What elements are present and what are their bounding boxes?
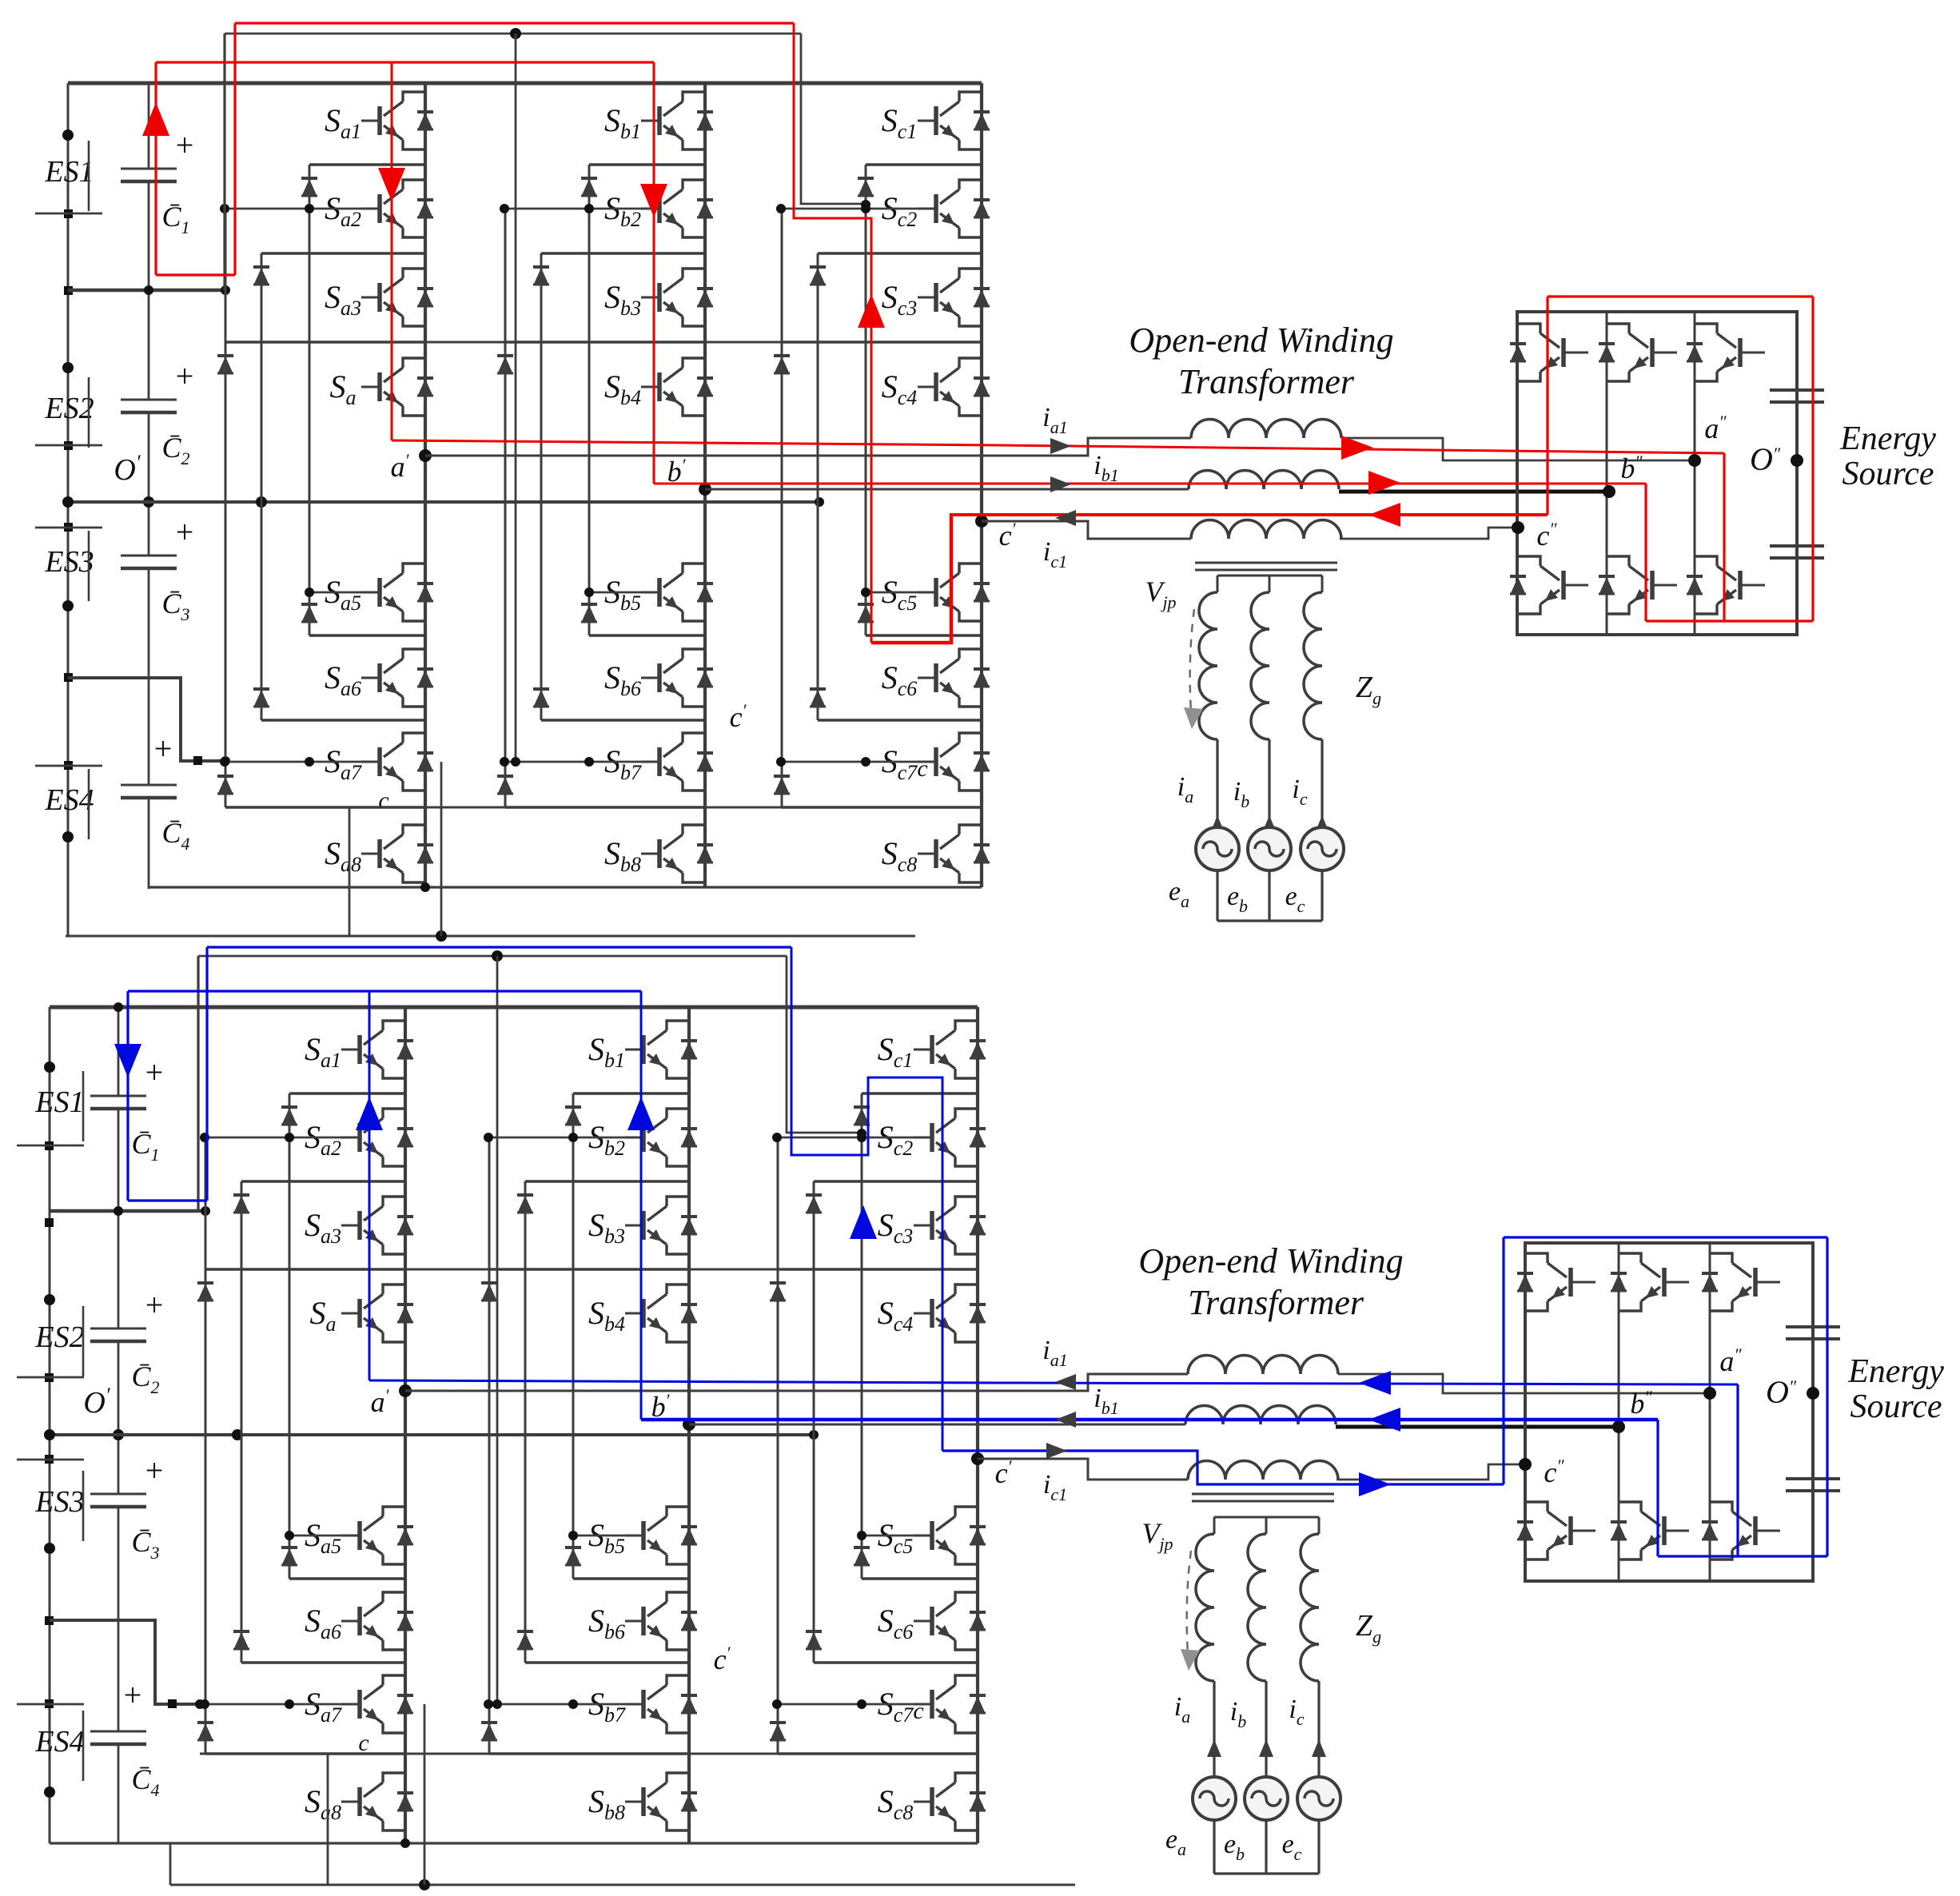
wire: top half secondary top bus	[1217, 576, 1322, 592]
wire: bottom half c-leg gate bus upper	[772, 1133, 915, 1142]
switch Sa4 (bottom half)	[341, 1285, 405, 1342]
blue path: C1 loop bottom	[128, 1199, 207, 1201]
diode of Sb5 (top half)	[697, 584, 713, 601]
switch Sc4 (bottom half)	[914, 1285, 978, 1342]
switch Sa8 (top half)	[361, 825, 425, 882]
label b'' (bottom half)	[1630, 1387, 1652, 1420]
blue arrow up at Sa2	[356, 1097, 383, 1130]
switch Sb1 (top half)	[641, 92, 705, 149]
wire: top half c-leg clamp bar 3 lower	[782, 806, 982, 809]
wire: top half link drop a	[223, 34, 225, 290]
diode of Sb5 (bottom half)	[681, 1527, 697, 1544]
wire: top half b-phase thick line to converter	[1339, 490, 1609, 494]
capacitor lower (top half)	[1770, 546, 1824, 558]
label Sb6 (top half)	[604, 659, 641, 700]
label i_c1 (top half)	[1043, 537, 1067, 572]
diode of Sc3 (bottom half)	[970, 1217, 986, 1234]
node a'' (bottom half)	[1703, 1387, 1716, 1400]
wire: top half a-leg clamp bar 2 lower	[261, 719, 425, 722]
label C4 (top half)	[161, 817, 189, 854]
wire: bottom half a-phase line to winding	[405, 1374, 1188, 1391]
diode of Sa5 (bottom half)	[397, 1527, 413, 1544]
junction on bottom half left bus	[45, 1218, 54, 1227]
svg-text:c: c	[358, 1730, 368, 1756]
winding b1 (bottom half)	[1185, 1406, 1336, 1425]
switch Sc3 (bottom half)	[914, 1197, 978, 1254]
diode of Sa7 (top half)	[417, 753, 433, 771]
label e_b (bottom half)	[1224, 1830, 1245, 1864]
wire: bottom half c-leg clamp bar 2 upper	[814, 1180, 978, 1183]
red path: Sc branch top	[794, 23, 871, 643]
capacitor upper (top half)	[1770, 390, 1824, 402]
clamp diode c2d (top half)	[810, 689, 826, 707]
red path: C1 loop bottom	[156, 273, 235, 276]
wire: top half c-phase line to winding	[982, 521, 1191, 539]
svg-text:Energy: Energy	[1847, 1353, 1944, 1390]
switch Sb1 (bottom half)	[625, 1021, 689, 1078]
winding c2 / Zg (top half)	[1304, 592, 1322, 739]
label Z_g (bottom half)	[1356, 1609, 1381, 1647]
label Sb5 (bottom half)	[588, 1517, 625, 1558]
switch Sa3 (bottom half)	[341, 1197, 405, 1254]
label Sc4 (top half)	[882, 368, 918, 409]
label Sc7 (bottom half)	[878, 1686, 914, 1727]
switch Sa4 (top half)	[361, 358, 425, 416]
label Sb1 (top half)	[604, 102, 641, 143]
blue arrow left a-line	[1359, 1371, 1391, 1395]
label Sa5 (top half)	[325, 574, 361, 615]
label O'' (top half)	[1750, 441, 1781, 477]
label C2 (top half)	[161, 432, 189, 468]
diode of Sc6 (top half)	[974, 669, 990, 687]
diode of Sa8 (top half)	[417, 845, 433, 862]
label Sc4 (bottom half)	[878, 1295, 914, 1336]
converter switch T2L (bottom half)	[1619, 1502, 1689, 1559]
wire: top half a-phase line to converter	[1341, 438, 1695, 460]
diode of Sb3 (bottom half)	[681, 1217, 697, 1234]
clamp diode b3d (bottom half)	[481, 1723, 497, 1740]
junction on top half left bus	[64, 761, 73, 770]
winding c1 (top half)	[1191, 520, 1341, 540]
svg-text:+: +	[145, 1287, 164, 1323]
energy source ES3 (top half)	[44, 531, 94, 601]
junction on top half left bus	[64, 286, 73, 295]
capacitor C1 (bottom half)	[90, 1096, 146, 1109]
label C3 (bottom half)	[131, 1526, 159, 1563]
label i_b (top half)	[1233, 777, 1249, 811]
label Sc3 (top half)	[882, 279, 918, 320]
label Z_g (top half)	[1356, 671, 1381, 708]
label C1 (bottom half)	[131, 1128, 159, 1165]
wire: bottom half b-phase thick line to converter	[1336, 1425, 1619, 1429]
dark arrow a-line	[1050, 438, 1071, 454]
wire: top half grid lead b	[1268, 739, 1270, 827]
label Sa2 (top half)	[325, 190, 361, 231]
label a'' (bottom half)	[1719, 1344, 1742, 1377]
wire: bottom half b-leg clamp bar 1 lower	[573, 1577, 689, 1580]
diode of Sb8 (bottom half)	[681, 1793, 697, 1810]
label Sc7 (top half)	[882, 743, 918, 784]
label V_jp (bottom half)	[1141, 1517, 1173, 1554]
diode of Sb2 (top half)	[697, 200, 713, 217]
node on bottom half left bus	[44, 1786, 55, 1798]
switch Sc7 (top half)	[918, 733, 982, 791]
label + of C4 (top half)	[154, 731, 173, 767]
switch Sb8 (bottom half)	[625, 1773, 689, 1830]
blue arrow up at Sb2	[627, 1097, 655, 1130]
label Sb6 (bottom half)	[588, 1603, 625, 1643]
wire: bottom half ES1-ES2 junction to clamp column	[50, 1206, 210, 1216]
wire: bottom half converter frame	[1525, 1243, 1813, 1581]
arrow i_a (top half)	[1210, 815, 1225, 833]
energy source ES1 (top half)	[44, 141, 94, 211]
switch Sc5 (top half)	[918, 564, 982, 621]
wire: top half b-phase line to winding	[705, 488, 1189, 491]
diode of Sa4 (top half)	[417, 378, 433, 396]
blue path: c-phase line	[942, 1451, 1504, 1484]
diode of Sa6 (top half)	[417, 669, 433, 687]
svg-text:+: +	[124, 1677, 142, 1713]
label Sb2 (bottom half)	[588, 1119, 625, 1160]
diode of Sa4 (bottom half)	[397, 1304, 413, 1322]
label Energy (top half)	[1839, 420, 1936, 457]
clamp diode b1u (bottom half)	[565, 1107, 581, 1125]
blue path: C1 loop right vertical	[205, 947, 208, 1201]
wire: top half b-leg clamp bar 2 upper	[541, 252, 705, 255]
wire: bottom half O-prime bus	[44, 1429, 819, 1440]
label Sb7 (top half)	[604, 743, 642, 784]
diode T2H (top half)	[1599, 344, 1615, 361]
label + of C2 (top half)	[176, 358, 194, 394]
red path: b-phase line	[654, 483, 1646, 485]
wire: bottom half grid lead b	[1265, 1681, 1267, 1777]
wire: bottom half a-phase line to converter	[1338, 1374, 1710, 1393]
capacitor C2 (bottom half)	[90, 1328, 146, 1341]
arrow i_c (top half)	[1315, 815, 1329, 833]
wire: bottom half long clamp bus upper	[207, 1269, 778, 1271]
node b-prime (top half)	[699, 483, 711, 496]
converter switch T1H (bottom half)	[1525, 1253, 1595, 1311]
label Sc8 (top half)	[882, 835, 918, 876]
red path: converter left vertical	[1546, 297, 1548, 515]
blue path: b-phase line	[641, 1418, 1658, 1422]
wire: top half b-leg clamp column 2	[540, 253, 543, 720]
clamp diode a3u (top half)	[217, 356, 233, 373]
diode of Sc3 (top half)	[974, 289, 990, 306]
label i_c (top half)	[1292, 775, 1307, 809]
clamp diode c3d (top half)	[774, 776, 790, 794]
label e_a (top half)	[1169, 877, 1189, 911]
switch Sb8 (top half)	[641, 825, 705, 882]
switch Sc7 (bottom half)	[914, 1675, 978, 1733]
diode T2H (bottom half)	[1611, 1273, 1627, 1291]
label + of C4 (bottom half)	[124, 1677, 142, 1713]
svg-text:ES4: ES4	[44, 783, 94, 817]
switch Sb2 (bottom half)	[625, 1109, 689, 1166]
switch Sa5 (bottom half)	[341, 1507, 405, 1564]
clamp diode b2d (top half)	[533, 689, 549, 707]
clamp diode c1u (bottom half)	[854, 1107, 870, 1125]
label c'' (top half)	[1536, 519, 1557, 552]
node on bottom half left bus	[44, 1062, 55, 1073]
diode T2L (top half)	[1599, 576, 1615, 594]
wire: top half phase-c leg rail	[980, 83, 983, 887]
capacitor lower (bottom half)	[1786, 1479, 1840, 1491]
converter switch T2H (top half)	[1607, 324, 1677, 381]
label a'' (top half)	[1704, 412, 1727, 444]
blue path: b drop in converter	[1656, 1420, 1659, 1556]
wire: top half phase-a leg rail	[424, 83, 427, 887]
svg-text:Open-end Winding: Open-end Winding	[1129, 321, 1393, 360]
label Sa3 (top half)	[325, 279, 361, 320]
label i_c (bottom half)	[1289, 1695, 1304, 1729]
energy source ES2 (top half)	[44, 377, 94, 448]
dashed Vjp arrow (bottom half)	[1181, 1551, 1200, 1671]
red path: converter bottom	[1646, 619, 1813, 622]
label Source (bottom half)	[1850, 1388, 1942, 1425]
junction on top half left bus	[64, 209, 73, 218]
svg-text:+: +	[145, 1452, 164, 1488]
arrow i_a (bottom half)	[1207, 1739, 1221, 1757]
label Sb7 (bottom half)	[588, 1686, 626, 1727]
diode T1H (top half)	[1510, 344, 1526, 361]
diode of Sa3 (top half)	[417, 289, 433, 306]
wire: top half a-leg clamp bar 1 lower	[309, 634, 425, 637]
wire: top half converter leg 3	[1694, 312, 1696, 635]
dark arrow a-line (bottom)	[1055, 1374, 1076, 1390]
diode of Sc4 (top half)	[974, 378, 990, 396]
wire: top half c-leg clamp bar 3 upper	[782, 341, 982, 344]
wire: top half left DC bus vertical	[67, 83, 70, 936]
label Sa3 (bottom half)	[305, 1207, 341, 1248]
label a' (bottom half)	[371, 1385, 390, 1418]
blue path: Sb branch	[640, 991, 643, 1420]
wire: top half long clamp bus upper	[227, 341, 782, 344]
wire: top half ES1-ES2 junction to clamp column	[68, 285, 230, 295]
label i_a (top half)	[1177, 772, 1193, 807]
clamp diode b2u (bottom half)	[517, 1195, 533, 1213]
node C1 top lead (bottom half)	[113, 1002, 124, 1440]
winding b2 (bottom half)	[1248, 1534, 1266, 1681]
wire: top half link drop b	[511, 34, 520, 767]
red path: a-phase line	[392, 440, 1724, 453]
wire: bottom half c-leg clamp column 1	[861, 1093, 863, 1579]
clamp diode c1d (top half)	[858, 604, 874, 622]
label C4 (bottom half)	[131, 1763, 159, 1800]
wire: bottom half c-leg S5 gate link	[857, 1531, 915, 1540]
grid source e_b (top half)	[1248, 827, 1291, 870]
red path: top line	[235, 22, 794, 24]
clamp diode b3d (top half)	[497, 776, 513, 794]
wire: top half a-leg S5 gate link	[305, 588, 363, 597]
svg-text:ES3: ES3	[44, 545, 94, 579]
node b'' (bottom half)	[1612, 1420, 1625, 1433]
clamp diode a2u (bottom half)	[233, 1195, 249, 1213]
wire: bottom half phase-b leg rail	[687, 1007, 691, 1843]
blue path: C1 loop vertical	[126, 991, 129, 1201]
wire: top half O-prime bus	[62, 496, 824, 508]
wire: top half lower return drop	[440, 762, 443, 936]
wire: top half c-leg gate bus upper	[776, 204, 919, 213]
label Sc8 (bottom half)	[878, 1783, 914, 1824]
clamp diode a3d (bottom half)	[197, 1723, 213, 1740]
label Sc6 (bottom half)	[878, 1603, 914, 1643]
label + of C1 (top half)	[176, 127, 194, 163]
diode of Sc5 (top half)	[974, 584, 990, 601]
diode of Sa2 (bottom half)	[397, 1129, 413, 1146]
node a-prime (top half)	[419, 449, 432, 462]
wire: bottom half ES terminal tick	[17, 1145, 84, 1147]
red arrow down at Sb2	[640, 184, 667, 217]
switch Sb2 (top half)	[641, 180, 705, 237]
label Sc2 (bottom half)	[878, 1119, 914, 1160]
diode of Sb7 (bottom half)	[681, 1695, 697, 1713]
label Sc1 (top half)	[882, 102, 918, 143]
clamp diode a3u (bottom half)	[197, 1283, 213, 1301]
node ES4 tap (top half)	[144, 285, 230, 766]
diode of Sb3 (top half)	[697, 289, 713, 306]
clamp diode b3u (top half)	[497, 356, 513, 373]
red path: converter top	[1548, 295, 1813, 297]
node c-prime (bottom half)	[971, 1452, 984, 1465]
blue path: Sa branch	[368, 991, 371, 1380]
red arrow left c-line	[1368, 503, 1400, 527]
wire: top half grid lead c	[1321, 739, 1323, 827]
wire: bottom half b-leg clamp bar 3 lower	[489, 1752, 689, 1755]
switch Sc5 (bottom half)	[914, 1507, 978, 1564]
label Sb3 (top half)	[604, 279, 641, 320]
label Open-end Winding (bottom half)	[1138, 1241, 1403, 1281]
clamp diode a2u (top half)	[253, 267, 269, 285]
red arrow up at Sc3	[858, 294, 885, 328]
label i_b (bottom half)	[1230, 1697, 1246, 1731]
capacitor C4 (top half)	[121, 785, 177, 798]
wire: bottom half b-leg clamp bar 1 upper	[573, 1092, 689, 1095]
clamp diode a3d (top half)	[217, 776, 233, 794]
svg-text:c: c	[378, 787, 388, 814]
wire: bottom half b-leg clamp column 1	[572, 1093, 575, 1579]
svg-text:Source: Source	[1842, 456, 1934, 492]
label Sa1 (bottom half)	[305, 1031, 341, 1072]
wire: bottom half leg bottom bus	[50, 1838, 978, 1848]
label V_jp (top half)	[1145, 576, 1176, 612]
converter switch T3H (top half)	[1695, 324, 1765, 381]
diode of Sa2 (top half)	[417, 200, 433, 217]
wire: top half a-leg clamp bar 1 upper	[309, 163, 425, 166]
node c'' (bottom half)	[1519, 1458, 1532, 1471]
wire: bottom half c-leg clamp bar 2 lower	[814, 1661, 978, 1664]
node C1 top lead (top half)	[143, 496, 154, 508]
wire: top half ES terminal tick	[35, 213, 102, 215]
wire: bottom half b-phase line to winding	[689, 1424, 1185, 1426]
switch Sc6 (bottom half)	[914, 1592, 978, 1650]
red path: b drop in converter	[1644, 484, 1647, 621]
winding a2 / Vjp (bottom half)	[1196, 1534, 1214, 1681]
label e_c (top half)	[1285, 882, 1305, 916]
wire: top half c-leg clamp bar 1 upper	[866, 163, 982, 166]
capacitor C3 (bottom half)	[90, 1494, 146, 1507]
grid source e_a (top half)	[1196, 827, 1239, 870]
wire: top half ES terminal tick	[35, 765, 102, 767]
dark arrow c-line	[1055, 510, 1076, 526]
svg-text:Transformer: Transformer	[1178, 362, 1355, 401]
wire: top half a-leg clamp column 2	[261, 253, 263, 720]
wire: bottom half left DC bus vertical	[49, 1007, 51, 1843]
switch Sc2 (top half)	[918, 180, 982, 237]
wire: top half b-leg gate bus upper	[500, 204, 643, 213]
energy source ES2 (bottom half)	[34, 1306, 84, 1376]
node on top half left bus	[62, 600, 74, 611]
red path: under Sc5	[871, 513, 951, 643]
winding b2 (top half)	[1251, 592, 1269, 739]
wire: top half c-leg clamp bar 2 lower	[818, 719, 982, 722]
svg-text:+: +	[145, 1054, 164, 1090]
wire: bottom half c-leg clamp column 3	[777, 1137, 779, 1754]
grid source e_b (bottom half)	[1245, 1777, 1288, 1820]
svg-text:+: +	[176, 127, 194, 163]
svg-text:Transformer: Transformer	[1188, 1283, 1364, 1322]
label c small a-leg (bottom half)	[358, 1730, 368, 1756]
wire: top half a-leg clamp bar 3 upper	[225, 341, 425, 344]
svg-text:c: c	[917, 755, 927, 782]
clamp diode b3u (bottom half)	[481, 1283, 497, 1301]
diode of Sa3 (bottom half)	[397, 1217, 413, 1234]
label Sa4 (top half)	[330, 368, 357, 409]
label + of C3 (top half)	[176, 514, 194, 550]
wire: top half b-leg S5 gate link	[584, 588, 643, 597]
label Sc3 (bottom half)	[878, 1207, 914, 1248]
clamp diode c3d (bottom half)	[770, 1723, 786, 1740]
node a'' (top half)	[1688, 454, 1701, 467]
label Sc5 (bottom half)	[878, 1517, 914, 1558]
label c' (bottom half)	[995, 1456, 1013, 1489]
wire: top half long clamp bus lower	[225, 807, 782, 809]
diode of Sa5 (top half)	[417, 584, 433, 601]
node on top half left bus	[62, 831, 74, 842]
blue arrow right c-line	[1359, 1472, 1391, 1496]
converter switch T1H (top half)	[1518, 324, 1588, 381]
transformer core (top half)	[1195, 563, 1337, 570]
label O' (bottom half)	[83, 1384, 110, 1420]
winding b1 (top half)	[1189, 471, 1339, 490]
svg-text:ES4: ES4	[34, 1725, 84, 1759]
clamp diode b2d (bottom half)	[517, 1631, 533, 1649]
arrow i_b (top half)	[1262, 815, 1277, 833]
capacitor C3 (top half)	[121, 556, 177, 568]
label Sc6 (top half)	[882, 659, 918, 700]
wire: top half a-leg clamp bar 2 upper	[261, 252, 425, 255]
wire: top half b-leg clamp column 3	[504, 209, 507, 807]
label Source (top half)	[1842, 456, 1934, 492]
diode of Sb4 (bottom half)	[681, 1304, 697, 1322]
label Sb5 (top half)	[604, 574, 641, 615]
wire: bottom half link drop c	[787, 956, 866, 1138]
wire: bottom half c-phase line to converter	[1337, 1464, 1525, 1480]
node b'' (top half)	[1603, 485, 1615, 498]
switch Sb4 (bottom half)	[625, 1285, 689, 1342]
arrow i_b (bottom half)	[1259, 1739, 1273, 1757]
red arrow up at C1	[142, 102, 169, 136]
wire: top half a-leg gate bus lower	[220, 757, 363, 767]
wire: top half phase-b leg rail	[703, 83, 707, 887]
label C3 (top half)	[161, 588, 189, 624]
wire: top half c-phase line to converter	[1340, 528, 1518, 539]
diode T2L (bottom half)	[1611, 1522, 1627, 1540]
blue path: top line	[207, 946, 791, 948]
switch Sa6 (bottom half)	[341, 1592, 405, 1650]
clamp diode c3u (bottom half)	[770, 1283, 786, 1301]
label Sa7 (bottom half)	[305, 1686, 342, 1727]
